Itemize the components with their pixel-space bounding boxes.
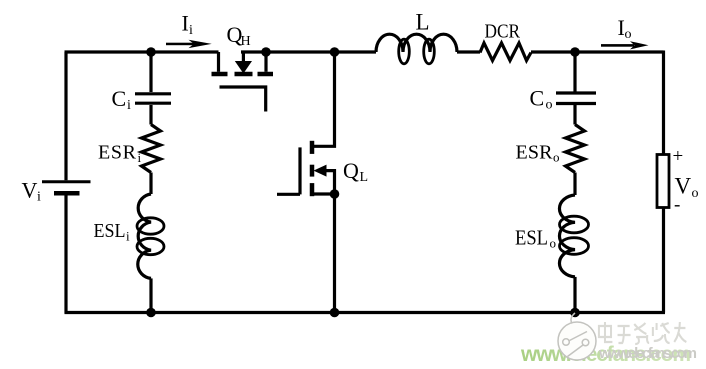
wire left edge upper: [64, 52, 67, 180]
svg-text:i: i: [127, 98, 131, 113]
wire DCR to right corner: [531, 50, 664, 53]
svg-text:-: -: [674, 195, 680, 216]
node dot bottom QL: [330, 308, 340, 318]
transistor QL body lead: [325, 171, 335, 194]
inductor ESLi loop 2: [137, 238, 164, 254]
transistor QL source stub: [314, 192, 335, 195]
inductor ESLo loop 1: [560, 216, 589, 233]
transistor QH body diode arrow: [235, 61, 252, 74]
current arrow Io: [601, 41, 649, 49]
svg-text:L: L: [360, 170, 369, 185]
svg-text:V: V: [22, 178, 38, 203]
wire top-left segment: [65, 50, 219, 53]
svg-text:C: C: [530, 86, 545, 111]
wire Co branch upper: [573, 52, 576, 92]
svg-text:L: L: [416, 10, 430, 35]
inductor ESLi loop 1: [137, 218, 164, 234]
transistor QL gate bar: [298, 147, 301, 194]
svg-text:ESR: ESR: [516, 142, 554, 164]
resistor ESRo zigzag: [566, 125, 585, 173]
svg-text:i: i: [37, 190, 41, 205]
resistor ESRi zigzag: [142, 125, 161, 173]
wire top middle (QH drain to inductor): [241, 50, 376, 53]
svg-text:I: I: [182, 11, 189, 36]
svg-text:DCR: DCR: [485, 21, 521, 43]
resistor DCR zigzag: [480, 43, 531, 61]
svg-text:ESR: ESR: [98, 142, 137, 164]
wire ESLi to bottom: [149, 278, 152, 312]
capacitor Ci top plate: [135, 92, 171, 95]
watermark logo circle: [558, 313, 596, 360]
node dot switch node: [330, 47, 340, 57]
wire ESRo to ESLo: [573, 173, 576, 196]
svg-text:www.elecfans.com: www.elecfans.com: [598, 345, 697, 362]
wire ESLo to bottom: [573, 277, 576, 313]
wire right edge lower: [662, 208, 665, 313]
inductor ESLi humps: [138, 194, 151, 278]
node dot QL source: [330, 189, 340, 199]
svg-text:Q: Q: [343, 158, 359, 183]
wire bottom rail: [65, 311, 666, 314]
load Vo box: [657, 155, 669, 208]
transistor QH middle contact bar: [235, 72, 253, 77]
svg-text:i: i: [138, 150, 142, 165]
node dot top Co: [570, 47, 580, 57]
svg-text:i: i: [126, 229, 130, 244]
watermark chinese text 电子发烧友: [599, 322, 686, 344]
node dot bottom Co: [570, 308, 580, 318]
svg-text:H: H: [241, 34, 251, 49]
transistor QH drain contact bar: [258, 72, 274, 77]
capacitor Ci bottom plate: [135, 102, 171, 105]
svg-text:o: o: [550, 236, 557, 251]
svg-text:ESL: ESL: [515, 225, 548, 249]
wire Ci to ESRi: [149, 105, 152, 125]
transistor QH gate line and lead: [220, 87, 266, 112]
inductor L humps: [376, 34, 457, 52]
transistor QH body-diode lead: [242, 52, 245, 61]
transistor QH source lead: [217, 52, 220, 72]
svg-text:+: +: [673, 146, 684, 167]
inductor ESLo loop 2: [560, 238, 589, 255]
wire QL source to bottom: [333, 194, 336, 313]
svg-text:i: i: [189, 23, 193, 38]
wire inductor to DCR: [457, 50, 480, 53]
inductor ESLo humps: [559, 195, 575, 277]
capacitor Co bottom plate: [556, 102, 596, 105]
svg-text:o: o: [625, 27, 632, 42]
wire Co to ESRo: [573, 105, 576, 125]
wire ESRi to ESLi: [149, 173, 152, 195]
transistor QL drain contact bar: [310, 141, 315, 154]
svg-text:o: o: [546, 98, 553, 113]
svg-text:o: o: [553, 150, 560, 165]
battery Vi short plate: [54, 191, 80, 196]
svg-text:C: C: [112, 86, 127, 111]
wire Ci branch upper: [149, 52, 152, 92]
wire right edge upper: [662, 51, 665, 155]
node dot QH drain: [261, 47, 271, 57]
wire QL drain from top: [314, 52, 335, 146]
inductor L loop 2: [424, 39, 435, 64]
transistor QL source contact bar: [310, 183, 315, 196]
capacitor Co top plate: [556, 91, 596, 94]
battery Vi long plate: [42, 180, 91, 183]
svg-text:o: o: [692, 186, 699, 201]
transistor QH source contact bar: [212, 72, 228, 77]
current arrow Ii: [166, 40, 212, 48]
node dot bottom Ci: [146, 308, 156, 318]
transistor QL gate lead: [277, 193, 300, 196]
svg-text:ESL: ESL: [94, 220, 126, 242]
transistor QL middle contact bar: [310, 165, 315, 177]
inductor L loop 1: [399, 39, 410, 64]
transistor QH drain lead: [264, 52, 267, 72]
wire left edge lower: [64, 195, 67, 314]
transistor QL body arrow: [314, 165, 327, 177]
node dot top Ci: [146, 47, 156, 57]
